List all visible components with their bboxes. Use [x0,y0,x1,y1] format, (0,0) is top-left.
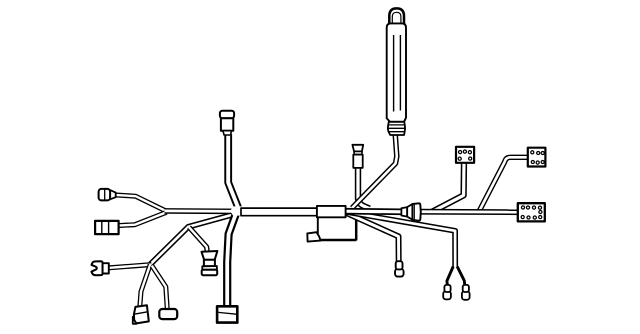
small trapezoid connector (bottom-left) [133,305,149,324]
small cap connector above trunk [352,145,363,168]
fork spade terminal [91,261,108,275]
cylinder ribbed cap [388,122,405,135]
left hub white merge patch [230,206,242,215]
wire from 3-way connector to left junction [118,212,167,225]
main harness trunk tube [241,208,318,216]
wire branch to bulb socket connector [189,227,207,251]
right 9-pin connector [518,203,545,221]
wire from center hub to Y-split bullet terminals [346,212,455,269]
jumper loop wire below trunk box [318,217,356,241]
wire from cylinder down to hub [352,134,397,208]
2-pin plug connector (upper-left) [99,189,116,201]
left bullet terminal of Y [443,285,451,300]
wire from Y junction down-right to oval connector [152,266,168,310]
bulb socket connector (stacked) [202,251,218,275]
wire from small cap connector down to hub [358,168,370,209]
bottom rectangular connector [217,306,237,322]
inline barrel connector: collar [401,203,420,220]
combined wire from junction to left hub [165,208,242,214]
wire from Y junction down-left to small connector [140,265,150,308]
cylinder body [387,23,406,121]
cylinder hanging loop [389,8,404,24]
wire from top connector down to left hub [228,134,239,211]
branch wire up to 6-pin connector [432,161,464,212]
6-pin square connector [456,147,474,163]
wire from left hub straight down to bottom rectangular connector [227,214,236,308]
right bullet terminal of Y [462,285,470,300]
upper-right 6-pin connector [528,148,546,167]
branch wire up to upper-right connector [480,157,528,210]
top connector cap [220,111,234,135]
trunk wire from hub to barrel connector and on to 9-pin connector [344,211,519,212]
ring-tab flag connector [307,232,320,241]
wire from center hub down-right to single bullet terminal [347,213,399,262]
Y split legs [447,267,465,286]
trunk taped box section [317,206,346,217]
wire from Y junction to fork terminal [108,265,152,268]
oval connector (bottom) [159,309,177,319]
3-way rectangular connector (left) [95,221,119,234]
single bullet terminal [395,261,404,276]
wire from left hub down-left to Y junction [150,213,240,265]
wire from 2-pin plug to left junction [115,195,167,211]
